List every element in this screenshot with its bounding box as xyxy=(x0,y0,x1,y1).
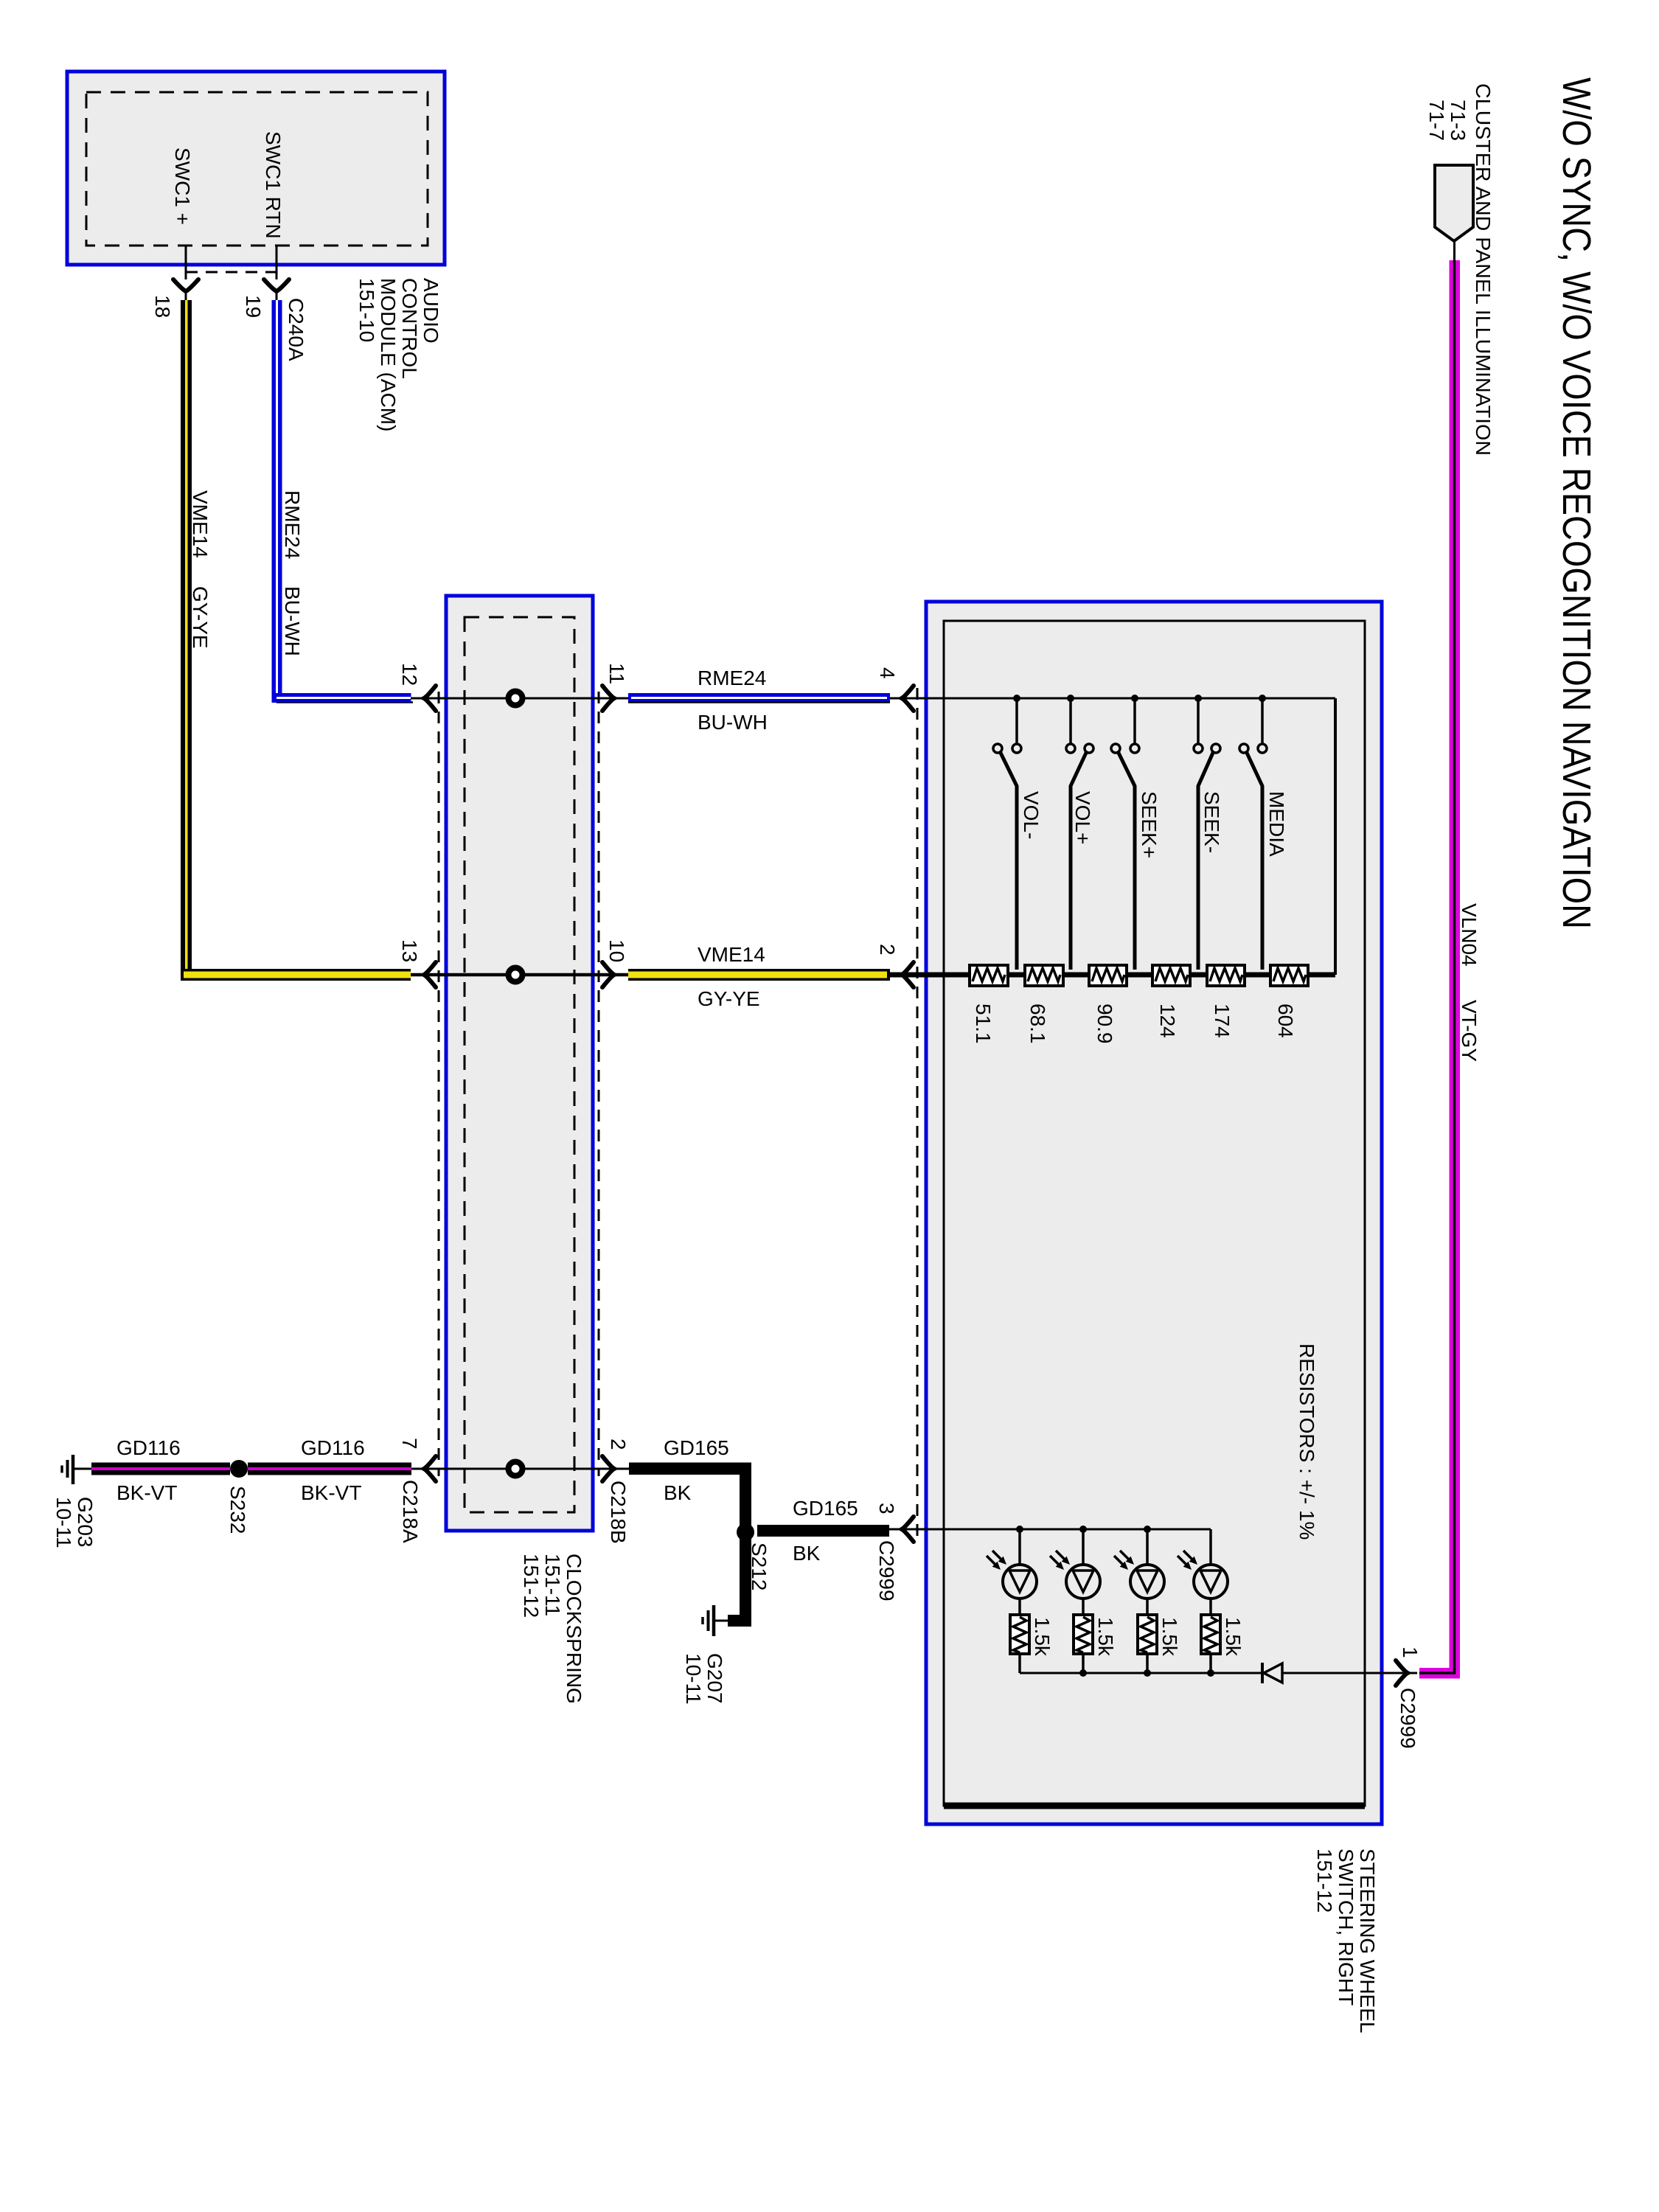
svg-text:4: 4 xyxy=(876,667,899,679)
svg-text:1: 1 xyxy=(1399,1646,1422,1658)
connector C2999 dashed line xyxy=(917,688,919,1539)
LED bottom bus junction dots xyxy=(1079,1669,1087,1677)
wire VME14 GY-YE horizontal segment pin 10 to pin 2 xyxy=(628,969,890,981)
connector C218B dashed line xyxy=(598,692,600,1476)
svg-text:STEERING WHEEL: STEERING WHEEL xyxy=(1356,1848,1379,2033)
clockspring pin 11 arrow xyxy=(602,686,614,711)
steering pin 4 arrow xyxy=(902,686,914,711)
steering pin 2 arrow xyxy=(902,962,914,987)
svg-text:SEEK+: SEEK+ xyxy=(1138,791,1161,858)
svg-text:C2999: C2999 xyxy=(875,1540,898,1601)
svg-text:MEDIA: MEDIA xyxy=(1265,791,1288,857)
svg-text:GY-YE: GY-YE xyxy=(189,586,212,649)
wire diode to pin 1 xyxy=(1282,1672,1417,1674)
svg-text:AUDIO: AUDIO xyxy=(420,278,442,344)
svg-text:19: 19 xyxy=(242,295,265,318)
svg-text:151-11: 151-11 xyxy=(541,1554,564,1616)
wire thick resistor chain segments xyxy=(890,973,1335,978)
splice S212 xyxy=(737,1523,754,1541)
steering wheel switch box xyxy=(926,602,1382,1824)
svg-text:G207: G207 xyxy=(703,1653,726,1704)
wire GD116 BK-VT segment 1 xyxy=(91,1463,230,1475)
svg-text:CLUSTER AND PANEL ILLUMINATION: CLUSTER AND PANEL ILLUMINATION xyxy=(1472,83,1495,456)
switch VOL+ xyxy=(1066,698,1093,970)
svg-text:RESISTORS : +/- 1%: RESISTORS : +/- 1% xyxy=(1295,1343,1318,1540)
resistor 68.1 xyxy=(1025,965,1063,986)
svg-text:SWC1 RTN: SWC1 RTN xyxy=(262,131,285,239)
svg-text:RME24: RME24 xyxy=(698,667,766,689)
svg-text:7: 7 xyxy=(398,1438,421,1450)
clockspring contact circle row 3 xyxy=(509,1462,523,1476)
svg-text:10: 10 xyxy=(605,939,628,962)
clockspring box xyxy=(446,596,593,1531)
clockspring pin 12 arrow xyxy=(424,686,436,711)
wire GD165 BK segment to ground G207 xyxy=(740,1532,751,1627)
wire RME24 BU-WH horizontal segment to pin 12 xyxy=(276,701,413,703)
bus junction dots row 947 xyxy=(1013,695,1020,702)
svg-text:11: 11 xyxy=(605,663,628,684)
svg-text:BU-WH: BU-WH xyxy=(281,586,304,656)
LED branch 2 xyxy=(1050,1529,1100,1673)
switch MEDIA xyxy=(1239,698,1267,970)
svg-text:C218A: C218A xyxy=(399,1480,422,1543)
LED branch 3 xyxy=(1114,1529,1164,1673)
svg-text:GY-YE: GY-YE xyxy=(698,987,760,1010)
LED bus junction dots top xyxy=(1016,1526,1023,1533)
svg-text:VME14: VME14 xyxy=(189,490,212,558)
switch VOL- xyxy=(993,698,1021,970)
svg-text:VME14: VME14 xyxy=(698,943,765,966)
svg-text:VT-GY: VT-GY xyxy=(1458,1000,1481,1062)
steering wheel switch inner box xyxy=(944,621,1365,1806)
pentagon lead line xyxy=(1453,241,1455,262)
svg-text:10-11: 10-11 xyxy=(682,1653,705,1705)
wire VLN04 VT-GY magenta wire xyxy=(1419,1668,1460,1679)
svg-text:18: 18 xyxy=(151,295,174,318)
wire VME14 GY-YE vertical segment xyxy=(185,291,187,302)
svg-text:VOL-: VOL- xyxy=(1020,791,1043,839)
ACM pin 19 stub line xyxy=(276,246,278,279)
svg-text:2: 2 xyxy=(607,1439,630,1450)
svg-text:W/O SYNC, W/O VOICE RECOGNITIO: W/O SYNC, W/O VOICE RECOGNITION NAVIGATI… xyxy=(1554,77,1599,929)
ground G203 symbol xyxy=(74,1468,91,1470)
wire thin line through clockspring row 1 xyxy=(411,698,628,700)
svg-text:SWC1 +: SWC1 + xyxy=(171,147,194,225)
svg-text:S212: S212 xyxy=(748,1543,771,1590)
switch SEEK- xyxy=(1194,698,1220,970)
connector C240A dashed line xyxy=(186,271,276,274)
wire LED top bus xyxy=(889,1528,1211,1531)
svg-text:SEEK-: SEEK- xyxy=(1200,791,1223,853)
svg-text:90.9: 90.9 xyxy=(1093,1004,1116,1044)
svg-text:1.5k: 1.5k xyxy=(1158,1617,1181,1657)
clockspring pin 7 arrow xyxy=(424,1456,436,1481)
wire GD116 BK-VT segment 2 xyxy=(248,1463,411,1475)
ACM pin 18 arrow xyxy=(173,279,198,291)
svg-text:71-7: 71-7 xyxy=(1425,100,1448,141)
svg-text:604: 604 xyxy=(1274,1004,1297,1038)
svg-text:BK: BK xyxy=(793,1542,821,1565)
clockspring pin 10 arrow xyxy=(602,962,614,987)
svg-text:RME24: RME24 xyxy=(281,490,304,559)
svg-text:174: 174 xyxy=(1211,1004,1234,1038)
clockspring pin 13 arrow xyxy=(424,962,436,987)
diode D1 xyxy=(1262,1663,1282,1683)
svg-text:C240A: C240A xyxy=(285,298,307,361)
steering pin 3 arrow xyxy=(902,1517,914,1542)
svg-text:1.5k: 1.5k xyxy=(1031,1617,1054,1657)
wire switch bus line xyxy=(890,698,1335,700)
svg-text:CONTROL: CONTROL xyxy=(398,278,421,379)
svg-text:71-3: 71-3 xyxy=(1447,100,1470,141)
audio control module ACM box xyxy=(67,72,445,265)
resistor 124 xyxy=(1152,965,1190,986)
ACM dashed inner box xyxy=(86,92,428,246)
ACM pin 18 stub line xyxy=(185,246,187,279)
resistor 51.1 xyxy=(970,965,1008,986)
switch SEEK+ xyxy=(1111,698,1139,970)
connector C218A dashed line xyxy=(438,692,440,1476)
svg-text:1.5k: 1.5k xyxy=(1094,1617,1117,1657)
svg-text:13: 13 xyxy=(398,939,421,962)
svg-text:BU-WH: BU-WH xyxy=(698,711,768,734)
svg-text:12: 12 xyxy=(398,663,421,686)
resistor 90.9 xyxy=(1089,965,1127,986)
wire thin line through clockspring row 2 xyxy=(411,973,628,977)
svg-text:3: 3 xyxy=(875,1503,898,1514)
wire LED bottom bus xyxy=(1020,1672,1262,1674)
svg-text:C2999: C2999 xyxy=(1397,1688,1419,1749)
ACM pin 19 arrow xyxy=(264,279,289,291)
svg-text:124: 124 xyxy=(1156,1004,1179,1038)
resistor 604 xyxy=(1270,965,1308,986)
clockspring dashed inner box xyxy=(465,617,574,1512)
svg-text:68.1: 68.1 xyxy=(1026,1004,1049,1044)
svg-text:GD165: GD165 xyxy=(793,1497,858,1520)
svg-text:151-12: 151-12 xyxy=(520,1554,543,1618)
svg-text:151-12: 151-12 xyxy=(1313,1848,1336,1913)
steering wheel switch inner box thick bottom edge xyxy=(944,1803,1365,1809)
svg-text:1.5k: 1.5k xyxy=(1222,1617,1245,1657)
off-page connector pentagon (cluster and panel illumination) xyxy=(1435,165,1473,241)
LED branch 1 xyxy=(987,1529,1037,1673)
svg-text:BK-VT: BK-VT xyxy=(301,1481,361,1504)
wire VME14 GY-YE horizontal segment to pin 13 xyxy=(181,969,411,981)
svg-text:GD116: GD116 xyxy=(116,1436,181,1459)
svg-text:2: 2 xyxy=(876,944,899,956)
clockspring contact circle row 1 xyxy=(411,698,628,699)
steering pin 1 arrow xyxy=(1396,1660,1408,1686)
wire RME24 BU-WH horizontal segment pin 11 to pin 4 xyxy=(628,693,890,703)
svg-text:BK-VT: BK-VT xyxy=(116,1481,177,1504)
svg-text:S232: S232 xyxy=(226,1486,249,1534)
svg-text:151-10: 151-10 xyxy=(355,278,378,342)
svg-text:VOL+: VOL+ xyxy=(1071,791,1094,844)
ground G207 symbol xyxy=(714,1620,728,1622)
wire thin line through clockspring row 3 xyxy=(411,1468,629,1470)
svg-text:VLN04: VLN04 xyxy=(1458,903,1481,967)
resistor 174 xyxy=(1207,965,1245,986)
clockspring pin 2 arrow xyxy=(602,1456,614,1481)
wire GD165 BK segment 2 to pin 3 xyxy=(757,1525,889,1537)
svg-text:SWITCH, RIGHT: SWITCH, RIGHT xyxy=(1335,1848,1357,2006)
LED branch 4 xyxy=(1178,1529,1228,1673)
svg-text:10-11: 10-11 xyxy=(52,1497,75,1548)
svg-text:G203: G203 xyxy=(74,1497,97,1548)
svg-text:GD165: GD165 xyxy=(664,1436,729,1459)
wire GD165 BK segment 1 xyxy=(629,1463,751,1475)
svg-text:MODULE (ACM): MODULE (ACM) xyxy=(377,278,400,431)
wire right vertical bus-to-chain xyxy=(1334,698,1337,975)
wire RME24 BU-WH vertical segment xyxy=(276,291,278,302)
svg-text:GD116: GD116 xyxy=(301,1436,365,1459)
svg-text:51.1: 51.1 xyxy=(972,1004,995,1044)
splice S232 xyxy=(230,1460,248,1478)
clockspring contact circle row 2 xyxy=(509,968,523,982)
svg-text:BK: BK xyxy=(664,1481,692,1504)
svg-text:CLOCKSPRING: CLOCKSPRING xyxy=(563,1554,585,1704)
svg-text:C218B: C218B xyxy=(607,1481,630,1544)
